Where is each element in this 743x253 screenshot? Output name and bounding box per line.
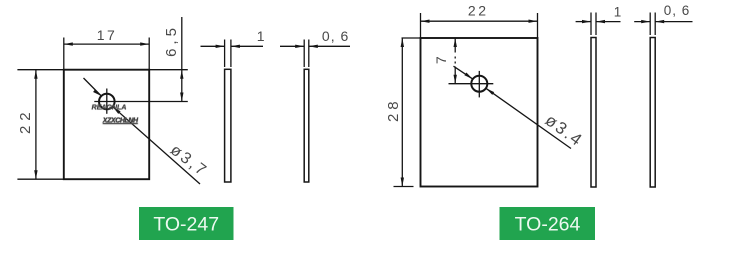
dim 17 line <box>64 43 149 45</box>
arrow dim6,5 down <box>180 93 183 102</box>
svg-text:1: 1 <box>614 5 622 20</box>
svg-text:0, 6: 0, 6 <box>664 3 691 18</box>
slab3 arrow right <box>596 20 605 23</box>
slab2 dim line right <box>309 45 350 47</box>
arrow leader into hole (lower) <box>113 107 121 114</box>
dim 22 extension lines <box>17 69 63 71</box>
arrow dim22 left <box>421 20 430 23</box>
hole (ø3.4) <box>471 76 487 92</box>
slab2 arrow left <box>295 45 304 48</box>
slab1 arrow left <box>216 45 225 48</box>
arrow dim22 up <box>34 70 37 79</box>
svg-text:28: 28 <box>385 97 402 122</box>
leader lower segment (ø3,7) <box>113 107 200 184</box>
arrow leader into hole (upper) <box>464 73 472 80</box>
slab3 dim line left <box>576 21 591 23</box>
slab1 arrow right <box>231 45 240 48</box>
svg-text:TO-264: TO-264 <box>515 214 581 236</box>
hole crosshair vertical <box>106 89 108 114</box>
svg-text:1: 1 <box>257 28 265 44</box>
svg-text:ø3.4: ø3.4 <box>542 111 587 151</box>
svg-text:17: 17 <box>97 27 118 43</box>
dim 28 line <box>401 38 403 187</box>
svg-text:XZXCHLNH: XZXCHLNH <box>102 117 139 124</box>
leader upper segment <box>84 78 102 96</box>
svg-text:22: 22 <box>468 2 489 18</box>
arrow leader into hole (lower) <box>486 88 494 95</box>
svg-text:0, 6: 0, 6 <box>322 28 349 44</box>
slab3 extension lines <box>590 13 592 36</box>
arrow leader into hole (upper) <box>93 89 101 96</box>
dim 7 line (dash-dot) <box>454 38 456 53</box>
arrow dim7 up <box>454 38 457 47</box>
svg-text:7: 7 <box>433 56 449 64</box>
slab3 dim line right <box>596 21 621 23</box>
arrow dim22 down <box>34 170 37 179</box>
arrow dim28 up <box>401 38 404 47</box>
hole crosshair vertical <box>478 71 480 98</box>
hole centerline horizontal <box>94 101 188 103</box>
svg-text:6,5: 6,5 <box>163 24 180 57</box>
dim 6,5 line <box>181 17 183 102</box>
dim 28 extension lines <box>402 37 421 39</box>
slab1 extension lines <box>224 40 226 68</box>
arrow dim17 left <box>64 42 73 45</box>
TO-264 badge <box>500 207 596 240</box>
svg-text:TO-247: TO-247 <box>153 214 219 236</box>
arrow dim17 right <box>140 42 149 45</box>
slab2 arrow right <box>309 45 318 48</box>
slab3 arrow left <box>582 20 591 23</box>
slab4 arrow left <box>641 20 650 23</box>
slab2 extension lines <box>303 40 305 68</box>
hole (ø3,7) <box>99 94 115 110</box>
leader upper segment <box>454 66 473 79</box>
dim 22 line <box>421 20 538 22</box>
dim 6,5 extension (top edge extended) <box>149 69 188 71</box>
dim 22 extension lines <box>420 13 422 38</box>
TO-247 pad outline <box>64 70 149 180</box>
slab2 dim line left <box>280 45 304 47</box>
TO-247 badge <box>139 207 234 240</box>
slab1 dim line left <box>201 45 225 47</box>
slab4 arrow right <box>655 20 664 23</box>
slab1 dim line right <box>231 45 263 47</box>
dim 17 extension lines <box>63 38 65 70</box>
slab4 dim line left <box>634 21 650 23</box>
arrow dim22 right <box>529 20 538 23</box>
slab4 dim line right <box>655 21 692 23</box>
TO-264 pad outline <box>421 38 538 187</box>
slab 1mm (TO-264) <box>591 38 596 188</box>
slab 1mm (TO-247) <box>225 69 231 182</box>
arrow dim6,5 up <box>180 70 183 79</box>
svg-text:REAGNLA: REAGNLA <box>92 102 127 111</box>
svg-text:22: 22 <box>17 107 34 134</box>
hole centerline horizontal <box>449 83 494 85</box>
arrow dim7 down <box>454 75 457 84</box>
slab 0.6mm (TO-264) <box>650 38 655 188</box>
leader lower segment (ø3.4) <box>486 88 571 148</box>
dim 22 line <box>35 70 37 180</box>
arrow dim28 down <box>401 178 404 187</box>
slab4 extension lines <box>649 13 651 36</box>
slab 0.6mm (TO-247) <box>304 69 309 182</box>
